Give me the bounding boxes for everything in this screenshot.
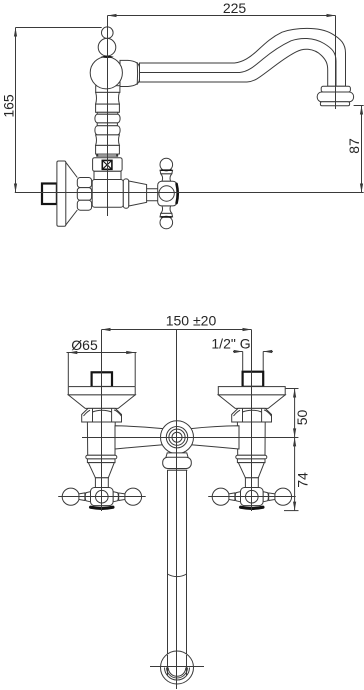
svg-text:165: 165	[1, 94, 17, 118]
svg-text:1/2" G: 1/2" G	[211, 335, 250, 351]
svg-text:50: 50	[294, 410, 310, 426]
svg-text:87: 87	[346, 138, 362, 154]
svg-text:225: 225	[223, 0, 247, 16]
svg-text:74: 74	[295, 472, 311, 488]
svg-text:150 ±20: 150 ±20	[166, 312, 217, 328]
svg-text:Ø65: Ø65	[71, 337, 98, 353]
